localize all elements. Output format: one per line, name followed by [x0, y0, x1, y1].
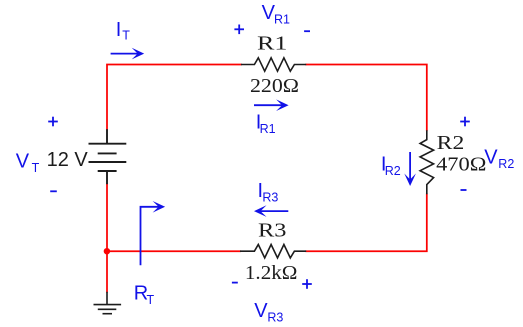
- svg-text:T: T: [32, 161, 40, 175]
- svg-text:V: V: [254, 300, 268, 322]
- svg-text:R2: R2: [385, 164, 401, 178]
- svg-text:R3: R3: [262, 191, 278, 205]
- svg-text:R1: R1: [257, 33, 287, 55]
- svg-text:T: T: [147, 293, 155, 307]
- svg-text:R3: R3: [258, 219, 287, 241]
- svg-text:R3: R3: [267, 310, 283, 324]
- svg-text:R2: R2: [498, 157, 514, 171]
- svg-text:12 V: 12 V: [47, 149, 89, 171]
- svg-text:R2: R2: [437, 132, 465, 154]
- svg-text:220Ω: 220Ω: [250, 75, 299, 97]
- svg-text:I: I: [116, 19, 122, 41]
- svg-text:R1: R1: [274, 12, 290, 26]
- svg-text:V: V: [16, 151, 30, 173]
- svg-text:1.2kΩ: 1.2kΩ: [245, 262, 298, 284]
- svg-text:470Ω: 470Ω: [436, 154, 486, 176]
- svg-text:T: T: [122, 29, 130, 43]
- svg-text:V: V: [484, 147, 498, 169]
- svg-text:R1: R1: [260, 122, 276, 136]
